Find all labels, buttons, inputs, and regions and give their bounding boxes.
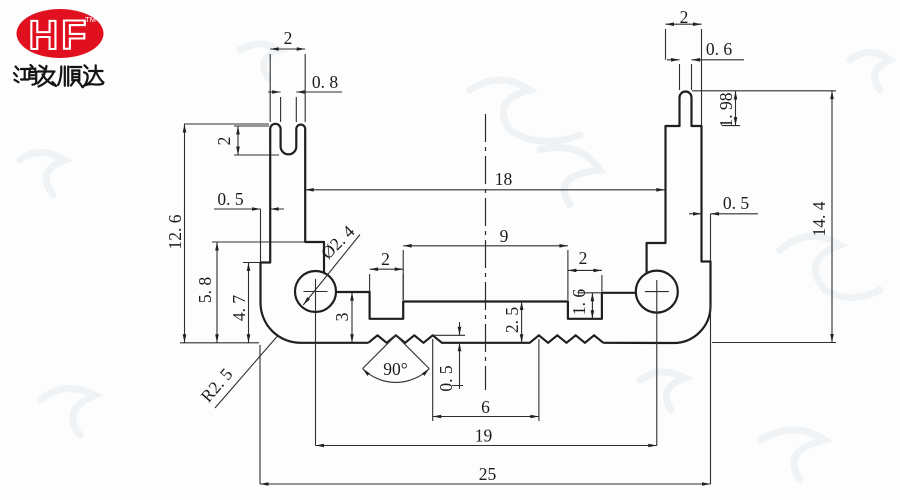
circle cross right <box>645 291 669 293</box>
dim 2 slot depth lines <box>234 126 279 155</box>
screw boss circle right <box>636 271 678 313</box>
dim 2 left block lines <box>370 269 404 300</box>
svg-text:TM: TM <box>85 15 96 24</box>
svg-text:6: 6 <box>481 397 490 417</box>
dim 19 lines <box>316 279 657 446</box>
dim 5.8 lines <box>212 242 305 343</box>
dim 6 lines <box>433 339 539 421</box>
dim 0.5 left lines <box>214 209 284 262</box>
dim 0.8 lines <box>268 92 342 122</box>
svg-text:2: 2 <box>381 249 390 269</box>
dim 0.5 serration lines <box>433 322 465 389</box>
leader R2.5 <box>215 336 278 408</box>
svg-text:R2. 5: R2. 5 <box>196 364 236 406</box>
svg-text:25: 25 <box>479 464 497 484</box>
profile right wall outline <box>603 92 710 344</box>
svg-text:1. 6: 1. 6 <box>569 289 589 316</box>
达 <box>85 65 104 84</box>
svg-text:2. 5: 2. 5 <box>502 307 522 334</box>
profile bottom serrations <box>368 335 603 343</box>
dim 0.6 lines <box>667 60 744 90</box>
发 <box>38 66 57 87</box>
鸿 <box>14 67 19 83</box>
svg-text:18: 18 <box>495 169 513 189</box>
svg-text:19: 19 <box>475 426 493 446</box>
dim 25 lines <box>260 303 711 484</box>
dim 2.5 line <box>521 302 523 343</box>
profile left wall outline <box>261 124 369 343</box>
svg-text:0. 5: 0. 5 <box>436 365 456 392</box>
svg-text:90°: 90° <box>383 359 408 379</box>
svg-text:9: 9 <box>500 226 509 246</box>
dimension texts <box>165 7 829 484</box>
svg-text:2: 2 <box>680 7 689 27</box>
svg-text:5. 8: 5. 8 <box>195 277 215 304</box>
svg-text:0. 8: 0. 8 <box>312 72 339 92</box>
svg-text:3: 3 <box>332 312 352 321</box>
logo red ellipse <box>17 9 104 58</box>
dim 0.5 right lines <box>689 214 758 261</box>
dim 4.7 lines <box>243 263 260 343</box>
leader phi 2.4 <box>303 235 360 305</box>
dim 2 top-right lines <box>666 24 702 125</box>
svg-text:2: 2 <box>579 248 588 268</box>
svg-text:2: 2 <box>284 28 293 48</box>
svg-text:12. 6: 12. 6 <box>165 214 185 249</box>
svg-text:14. 4: 14. 4 <box>809 201 829 236</box>
dim 2 top-left lines <box>270 49 305 122</box>
dim 18 line <box>305 189 665 191</box>
svg-text:0. 6: 0. 6 <box>706 39 733 59</box>
dim 3 line <box>351 292 353 343</box>
顺 <box>58 67 68 86</box>
svg-text:0. 5: 0. 5 <box>217 189 244 209</box>
arrows <box>183 22 834 485</box>
dim 1.6 lines <box>578 293 602 319</box>
dim 2 right block lines <box>568 270 602 291</box>
profile inner ledge and blocks <box>336 292 636 319</box>
screw boss circle left <box>295 271 336 312</box>
circle cross left <box>304 291 328 293</box>
svg-text:1. 98: 1. 98 <box>716 92 736 127</box>
center line (dash-dot) <box>485 114 487 390</box>
angle 90 lines and arc <box>363 335 430 382</box>
dim 14.4 lines <box>712 91 836 343</box>
dim 1.98 lines <box>692 91 836 126</box>
svg-text:HF: HF <box>29 12 90 58</box>
dim 9 lines <box>403 246 568 300</box>
logo chinese text 鸿发顺达 (drawn strokes) <box>14 65 104 87</box>
svg-text:4. 7: 4. 7 <box>229 295 249 322</box>
svg-text:2: 2 <box>214 137 234 146</box>
svg-text:0. 5: 0. 5 <box>723 193 750 213</box>
dim 12.6 lines <box>180 124 269 343</box>
